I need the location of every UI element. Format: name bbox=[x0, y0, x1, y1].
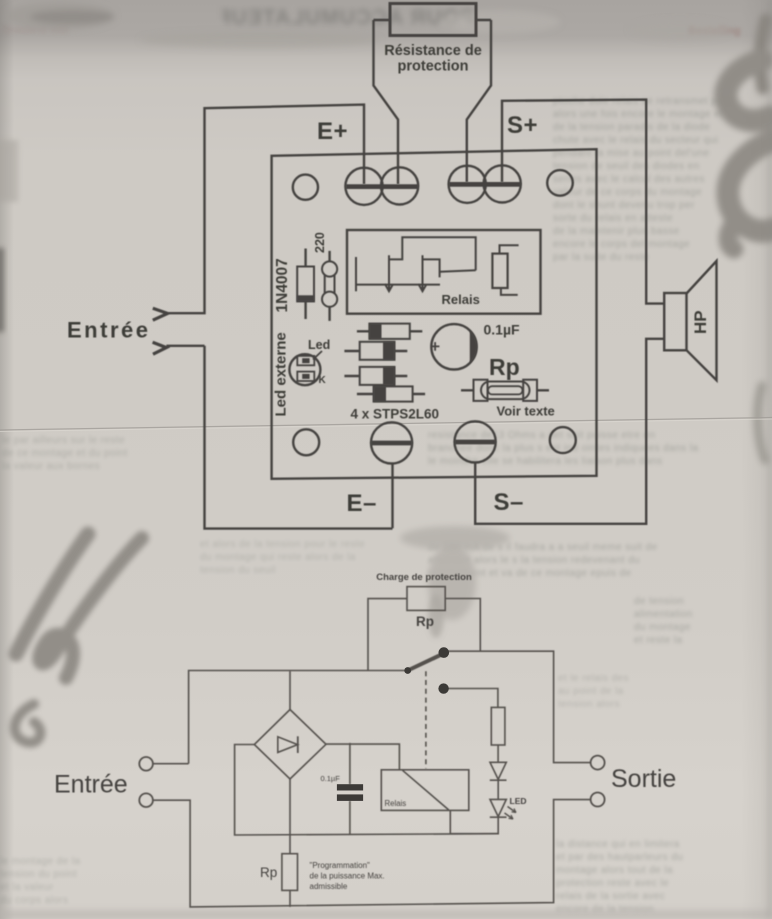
svg-text:HP: HP bbox=[691, 310, 710, 334]
svg-text:Relais: Relais bbox=[385, 799, 407, 808]
svg-text:Voir texte: Voir texte bbox=[497, 404, 555, 419]
svg-text:de la puissance Max.: de la puissance Max. bbox=[310, 872, 385, 881]
svg-text:Led: Led bbox=[308, 338, 330, 352]
svg-text:E+: E+ bbox=[317, 118, 348, 145]
svg-text:"Programmation": "Programmation" bbox=[310, 861, 371, 870]
svg-text:Sortie: Sortie bbox=[611, 765, 676, 793]
svg-text:0.1µF: 0.1µF bbox=[321, 774, 341, 783]
svg-text:Entrée: Entrée bbox=[67, 318, 150, 343]
svg-text:220: 220 bbox=[313, 232, 327, 253]
svg-text:Relais: Relais bbox=[442, 292, 480, 307]
svg-text:S+: S+ bbox=[507, 112, 538, 139]
svg-text:0.1µF: 0.1µF bbox=[484, 322, 521, 338]
svg-text:S–: S– bbox=[494, 489, 524, 516]
svg-text:Entrée: Entrée bbox=[54, 771, 128, 799]
svg-text:admissible: admissible bbox=[310, 882, 348, 891]
svg-text:Charge de protection: Charge de protection bbox=[376, 572, 472, 583]
svg-text:Résistance de: Résistance de bbox=[384, 43, 482, 59]
svg-text:K: K bbox=[319, 375, 327, 386]
svg-text:Rp: Rp bbox=[416, 614, 434, 629]
svg-text:4 x STPS2L60: 4 x STPS2L60 bbox=[351, 407, 440, 422]
svg-text:Led externe: Led externe bbox=[273, 332, 290, 416]
svg-text:Rp: Rp bbox=[260, 865, 277, 880]
svg-text:Rp: Rp bbox=[489, 354, 520, 380]
svg-text:LED: LED bbox=[510, 796, 527, 806]
svg-text:protection: protection bbox=[398, 59, 469, 75]
svg-text:E–: E– bbox=[347, 490, 377, 517]
svg-text:1N4007: 1N4007 bbox=[274, 258, 291, 312]
